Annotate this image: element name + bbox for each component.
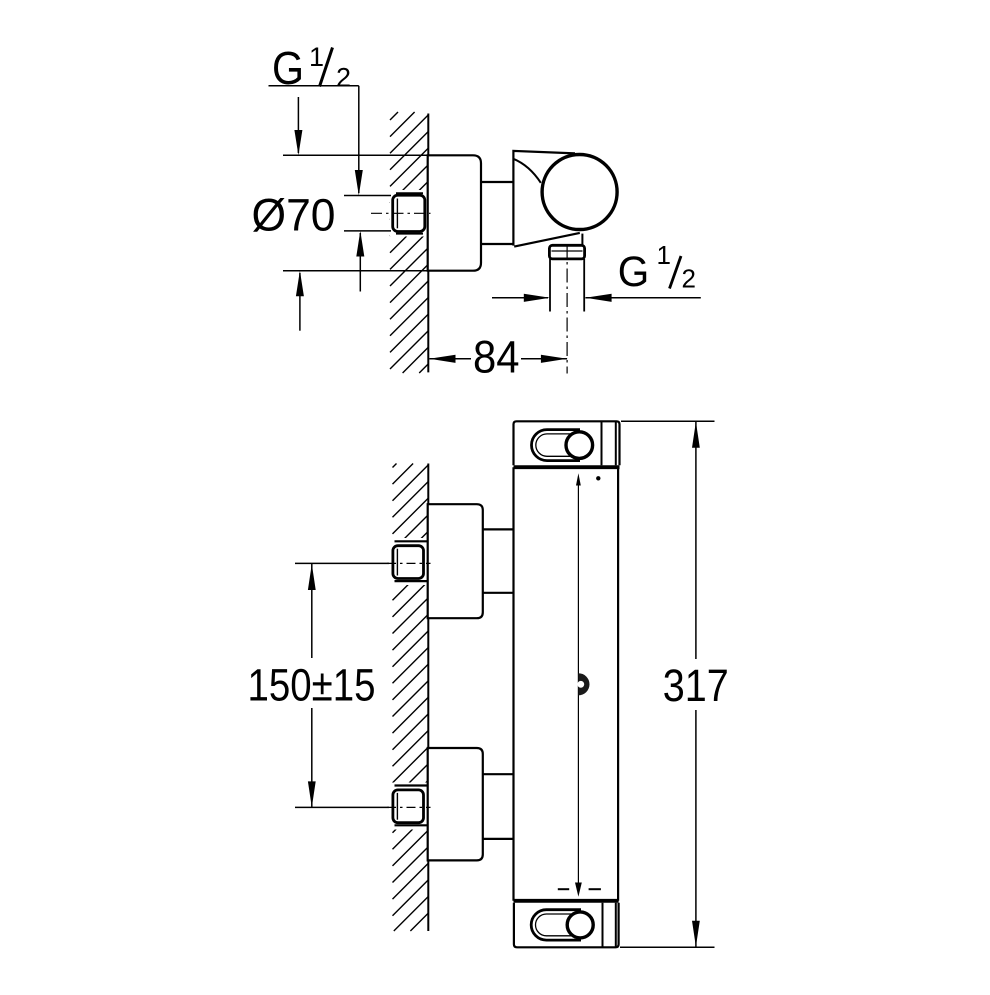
leader from label down to nut top xyxy=(358,86,360,193)
upper neck to bar xyxy=(483,528,514,530)
317 dimension line xyxy=(695,422,697,659)
bottom cap pill button xyxy=(531,910,581,940)
bar bottom cap xyxy=(514,903,619,948)
upper escutcheon rosette (lower figure) xyxy=(428,504,483,618)
lower union nut (lower figure) xyxy=(393,786,427,826)
150 +/- 15 dimension line xyxy=(311,564,313,658)
nut extension lines (G1/2) xyxy=(344,195,391,197)
dimension 84 xyxy=(429,355,455,363)
rosette extension line bottom (O70 lower) xyxy=(283,270,428,272)
G1/2 label underline xyxy=(269,85,359,87)
upper union nut (lower figure) xyxy=(393,541,427,581)
top cap pill button xyxy=(532,430,581,461)
lower escutcheon rosette (lower figure) xyxy=(428,748,483,860)
G1/2 label (right) xyxy=(618,240,696,296)
svg-text:Ø70: Ø70 xyxy=(252,190,336,241)
O70 arrows xyxy=(297,97,299,153)
shower outlet pipe xyxy=(549,259,551,312)
union nut in wall (top figure) xyxy=(393,193,425,233)
valve body (top figure) xyxy=(513,151,575,246)
bar top cap xyxy=(514,421,620,465)
svg-text:G: G xyxy=(618,248,650,296)
bar sides xyxy=(512,467,514,901)
connecting neck between rosette and valve body xyxy=(481,181,513,183)
317 extension lines xyxy=(621,420,715,422)
white cutouts behind lower-figure nuts xyxy=(390,538,427,585)
wall hatching (top figure) xyxy=(390,112,428,373)
outlet nut below body (G1/2) xyxy=(549,245,584,259)
svg-text:1: 1 xyxy=(657,240,671,270)
bottom junction bold line xyxy=(514,899,619,903)
lower neck to bar xyxy=(483,773,514,775)
svg-text:2: 2 xyxy=(336,63,351,93)
rosette extension line top (O70 upper) xyxy=(283,154,428,156)
G1/2 dimension arrows at pipe xyxy=(492,297,548,299)
svg-text:2: 2 xyxy=(682,264,696,294)
small dot right of centre arrow xyxy=(596,476,600,480)
white cutout behind top union nut xyxy=(390,190,427,237)
body bottom slant edge xyxy=(514,233,580,247)
bottom outlet centre cross xyxy=(558,888,569,890)
internal centre line of bar xyxy=(577,478,579,885)
svg-text:84: 84 xyxy=(473,332,520,383)
escutcheon rosette (top figure) xyxy=(428,155,481,270)
150 +/- 15 extension lines xyxy=(295,562,389,564)
wall hatching (lower figure) xyxy=(393,464,429,932)
svg-text:150±15: 150±15 xyxy=(248,659,376,710)
G1/2 label (top-left) xyxy=(272,42,351,94)
top junction bold line xyxy=(514,465,620,469)
nut centre line (dash-dot) xyxy=(371,212,431,214)
knob circle (top figure) xyxy=(542,155,617,230)
svg-text:1: 1 xyxy=(309,42,324,72)
wall edge line (lower figure) xyxy=(427,464,429,932)
wall edge line (top figure) xyxy=(427,114,429,373)
small knob detail on centre line xyxy=(578,673,589,695)
pipe centre line xyxy=(566,244,568,374)
arrow up to nut bottom xyxy=(359,233,361,292)
svg-text:317: 317 xyxy=(663,660,729,711)
